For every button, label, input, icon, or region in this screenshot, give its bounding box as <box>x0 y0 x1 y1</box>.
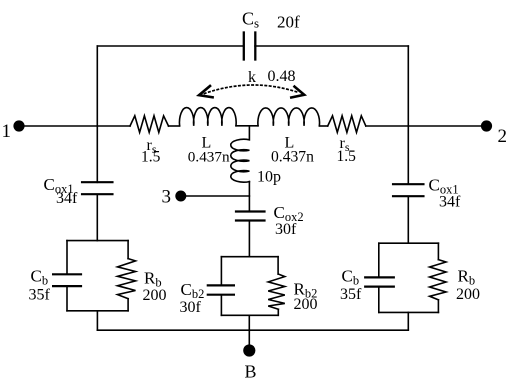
left box left edge upper <box>66 241 68 274</box>
svg-text:10p: 10p <box>257 169 281 186</box>
left box right edge lower <box>127 299 129 311</box>
resistor Rb right (vertical zigzag) <box>430 260 446 300</box>
svg-text:34f: 34f <box>56 190 78 207</box>
wire rs to L left <box>169 125 180 127</box>
svg-text:Cs: Cs <box>242 9 259 31</box>
resistor rs left <box>130 116 169 133</box>
svg-text:Cb: Cb <box>342 267 360 288</box>
node port 2 <box>481 120 492 131</box>
svg-text:Rb: Rb <box>458 267 476 288</box>
node B <box>243 344 255 356</box>
center box left edge upper <box>220 257 222 286</box>
capacitor Cox2 <box>236 212 265 221</box>
svg-text:0.48: 0.48 <box>268 68 296 85</box>
wire bottom bus <box>97 329 408 331</box>
center box right edge upper <box>277 257 279 274</box>
coupling arrow k (dotted arc) <box>205 85 299 94</box>
right box left edge upper <box>378 243 380 277</box>
svg-text:3: 3 <box>162 187 172 208</box>
right box left edge lower <box>378 287 380 312</box>
svg-text:0.437n: 0.437n <box>271 148 314 165</box>
inductor vertical center 10p <box>231 126 250 182</box>
svg-text:30f: 30f <box>275 221 297 238</box>
arrowhead left of k arc <box>199 86 213 97</box>
svg-text:20f: 20f <box>277 13 300 32</box>
capacitor Cb right <box>365 277 394 286</box>
svg-text:0.437n: 0.437n <box>188 148 230 165</box>
svg-text:200: 200 <box>456 286 480 303</box>
node port 1 <box>13 120 24 131</box>
svg-text:30f: 30f <box>180 299 202 316</box>
capacitor Cb left <box>53 274 81 286</box>
svg-text:Cb2: Cb2 <box>181 280 205 301</box>
wire right rail to right box <box>407 197 409 243</box>
svg-text:k: k <box>248 69 256 86</box>
svg-text:35f: 35f <box>29 287 51 304</box>
svg-text:1: 1 <box>2 121 12 142</box>
svg-text:B: B <box>245 362 257 382</box>
left box bottom edge <box>67 310 128 312</box>
svg-text:200: 200 <box>294 296 318 313</box>
left box right edge upper <box>127 241 129 259</box>
capacitor Cox1 right <box>393 184 424 196</box>
svg-text:1.5: 1.5 <box>141 148 161 165</box>
svg-text:Cb: Cb <box>31 267 49 288</box>
wire Cox2 to center box <box>248 221 250 257</box>
center box Cb2/Rb2: top edge <box>221 256 278 258</box>
wire L to rs right <box>319 125 327 127</box>
center box right edge lower <box>277 309 279 315</box>
wire center column to Cox2 <box>248 182 250 211</box>
wire right rail vertical <box>407 46 409 184</box>
capacitor Cox1 left <box>82 182 113 194</box>
wire left rail vertical <box>96 46 98 182</box>
wire rs to port2 <box>366 125 481 127</box>
left box Cb/Rb: top edge <box>67 240 128 242</box>
wire left box stub to bus <box>96 311 98 330</box>
wire center box stub to bus <box>248 315 250 330</box>
wire center junction <box>236 125 258 127</box>
svg-text:34f: 34f <box>439 194 461 211</box>
center box bottom edge <box>221 314 278 316</box>
svg-text:2: 2 <box>498 126 508 147</box>
wire right box stub to bus <box>407 312 409 329</box>
inductor L left <box>179 108 236 126</box>
node 3 <box>175 191 186 202</box>
wire top from left rail to Cs left plate <box>97 45 243 47</box>
wire left rail to left box <box>96 195 98 241</box>
wire port1 to rs <box>24 125 130 127</box>
resistor Rb left (vertical zigzag) <box>118 259 136 299</box>
capacitor Cs <box>244 33 256 60</box>
right box Cb/Rb: top edge <box>379 242 439 244</box>
left box left edge lower <box>66 286 68 310</box>
inductor L right <box>258 108 320 126</box>
right box right edge upper <box>437 243 439 259</box>
svg-text:200: 200 <box>143 287 167 304</box>
capacitor Cb2 <box>208 285 234 294</box>
center box left edge lower <box>220 295 222 315</box>
resistor rs right <box>328 116 366 133</box>
svg-text:35f: 35f <box>340 286 362 303</box>
svg-text:1.5: 1.5 <box>337 148 357 165</box>
wire top from Cs right plate to right rail <box>255 45 408 47</box>
arrowhead right of k arc <box>291 87 304 98</box>
right box bottom edge <box>379 311 439 313</box>
resistor Rb2 (vertical zigzag) <box>268 274 285 309</box>
wire node3 to center column <box>186 195 249 197</box>
right box right edge lower <box>437 300 439 313</box>
wire bus to node B <box>248 330 250 345</box>
